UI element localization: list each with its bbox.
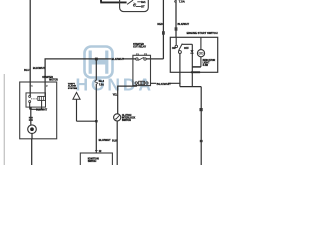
fuse curl top [175, 0, 176, 2]
ignition switch blade [127, 0, 133, 4]
svg-text:YEL: YEL [113, 94, 118, 97]
junction dot branch [95, 120, 98, 122]
clutch interlock switch [114, 114, 121, 121]
node rail [30, 100, 41, 109]
svg-text:BLU/WHT: BLU/WHT [99, 138, 111, 142]
svg-text:BLK/WHT: BLK/WHT [36, 109, 48, 112]
switch pole feed [175, 37, 177, 45]
starter motor box [20, 82, 57, 139]
connector on ground run [200, 108, 203, 111]
page edge line [3, 74, 5, 165]
junction dot main wire [95, 58, 98, 61]
terminal IG1 stub [137, 1, 141, 3]
diode branch wire [182, 44, 193, 86]
solenoid coil [38, 96, 46, 100]
ignition switch box [120, 0, 149, 12]
switch pole down wire [179, 53, 181, 86]
relay contacts [136, 58, 138, 60]
wire to motor with connector [30, 109, 32, 125]
contact down to node [29, 103, 31, 108]
svg-text:ST: ST [141, 5, 145, 9]
terminal ST stub [136, 6, 141, 8]
lamp bottom rail [192, 66, 201, 68]
switch blade [179, 44, 183, 51]
indicator light lamp [197, 50, 204, 57]
svg-text:BLU: BLU [24, 69, 29, 72]
svg-text:BLK: BLK [112, 141, 117, 143]
clutch switch ground wire [116, 121, 118, 165]
solenoid box [26, 93, 46, 107]
svg-text:SWITCH: SWITCH [88, 160, 97, 163]
svg-text:SYSTEM: SYSTEM [68, 88, 77, 90]
bottom middle box [80, 153, 112, 167]
starter motor M [28, 125, 37, 134]
svg-text:3.4W: 3.4W [203, 64, 209, 67]
indicator light stub [200, 37, 202, 67]
fuse curl [95, 80, 98, 84]
branch to security connector [77, 99, 97, 121]
relay right exit wire [151, 82, 181, 84]
pin ticks starter box [30, 84, 45, 86]
motor ground wire [31, 134, 33, 166]
connector on ST wire [162, 31, 165, 35]
wire ST to relay (right of ignition box) [162, 0, 164, 59]
relay coil [139, 81, 145, 85]
svg-text:OFF: OFF [184, 47, 189, 50]
connector 2 on ground run [200, 140, 203, 142]
left long feed wire [29, 0, 31, 95]
svg-text:1: 1 [31, 86, 33, 88]
relay pin marks top [137, 53, 145, 55]
svg-text:IG1: IG1 [141, 0, 146, 4]
wire ignition feed (top left corner) [100, 0, 126, 2]
svg-text:12: 12 [99, 150, 102, 153]
watermark honda badge [85, 47, 113, 78]
branch wire with fuse [95, 59, 97, 153]
svg-text:7.5A: 7.5A [179, 0, 186, 4]
switch contacts [175, 45, 178, 48]
svg-text:MOTOR: MOTOR [49, 79, 58, 81]
svg-text:BLK/WHT: BLK/WHT [178, 23, 190, 26]
svg-text:2: 2 [46, 86, 48, 88]
svg-text:BLK/WHT: BLK/WHT [33, 66, 45, 70]
solenoid contacts [29, 95, 31, 97]
svg-text:7.5A: 7.5A [99, 83, 104, 86]
diode D [190, 50, 193, 53]
ignition switch contact [133, 4, 135, 6]
svg-text:BLK/WHT: BLK/WHT [157, 82, 171, 86]
svg-text:SWITCH: SWITCH [122, 120, 131, 122]
relay coil pins [135, 82, 137, 84]
svg-text:CUT RELAY: CUT RELAY [133, 46, 146, 49]
connector arrow triangle [73, 92, 80, 99]
ground run to bottom [180, 87, 201, 165]
dashed link [31, 98, 38, 100]
right feed into solenoid coil [44, 83, 46, 96]
engine start switch box [170, 37, 217, 72]
node junction [29, 107, 32, 109]
svg-text:INDICATOR: INDICATOR [203, 59, 216, 62]
svg-text:RED: RED [157, 23, 162, 26]
wire relay to clutch switch [118, 84, 137, 113]
svg-text:BLK/WHT: BLK/WHT [111, 57, 124, 61]
svg-text:ENGINE START SWITCH: ENGINE START SWITCH [187, 31, 218, 35]
tick and pin label on branch [95, 149, 98, 151]
connector on fuse wire [175, 27, 178, 30]
fuse wire to engine start switch [175, 0, 177, 37]
junction blob at box bottom [191, 71, 200, 73]
main wire ST run [45, 59, 163, 83]
svg-text:ON: ON [172, 47, 176, 50]
starter cut relay box [133, 55, 151, 85]
